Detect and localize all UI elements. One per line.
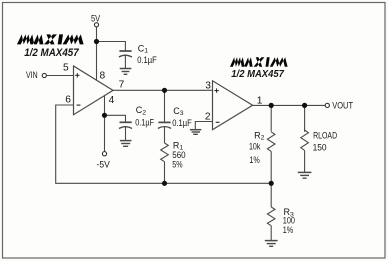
ground R3 (265, 240, 278, 242)
svg-text:8: 8 (100, 71, 106, 82)
wire R1 to ground rail (164, 162, 166, 184)
svg-text:-5V: -5V (97, 160, 111, 171)
svg-text:100: 100 (283, 216, 295, 226)
ground at U2 pin 2 (190, 129, 201, 131)
terminal VOUT (325, 103, 329, 107)
svg-text:1: 1 (257, 95, 263, 106)
op-amp U1 minus sign (77, 104, 81, 106)
svg-text:0.1µF: 0.1µF (137, 55, 157, 65)
wire R3 bottom to ground (270, 226, 272, 241)
svg-text:10k: 10k (249, 142, 261, 152)
ground C2 (120, 140, 132, 142)
op-amp U2 minus sign (216, 121, 220, 123)
capacitor C2 curved plate (119, 127, 132, 129)
svg-text:7: 7 (119, 79, 125, 90)
op-amp U2 plus sign (214, 88, 218, 92)
svg-text:1/2 MAX457: 1/2 MAX457 (24, 47, 79, 59)
ground RLOAD (298, 171, 312, 173)
wire R2 top (270, 105, 272, 131)
svg-text:RLOAD: RLOAD (313, 131, 337, 141)
junction dot 5V/pin8/C1 (94, 39, 99, 44)
wire C3 bottom to R1 (164, 127, 166, 144)
resistor R2 zigzag (267, 132, 275, 152)
wire 5V terminal down to junction (96, 27, 98, 42)
wire RLOAD top (304, 105, 306, 131)
junction dot R1/rail (162, 181, 167, 186)
wire junction to C1 (97, 42, 126, 52)
svg-text:4: 4 (109, 95, 115, 106)
svg-text:5%: 5% (172, 160, 182, 170)
junction dot RLOAD top (302, 103, 307, 108)
wire U2 pin 1 output to VOUT (253, 104, 326, 106)
svg-text:5V: 5V (91, 13, 101, 24)
capacitor C2 bottom stub (125, 127, 127, 141)
svg-text:1/2 MAX457: 1/2 MAX457 (231, 69, 285, 80)
wire pin 8 (junction down to triangle top edge) (96, 42, 98, 81)
svg-text:1%: 1% (283, 225, 293, 235)
ground C1 (120, 68, 132, 70)
capacitor C3 curved plate (158, 127, 171, 129)
svg-text:VOUT: VOUT (332, 100, 353, 111)
svg-text:3: 3 (205, 80, 211, 91)
junction dot output/C3 node (162, 88, 167, 93)
junction dot R2/rail/R3 (269, 181, 274, 186)
op-amp U1 triangle (74, 66, 114, 115)
wire RLOAD bottom to ground (304, 150, 306, 172)
svg-text:6: 6 (65, 95, 71, 106)
terminal 5V (94, 23, 98, 27)
capacitor C2 plate (120, 121, 132, 123)
wire junction to -5V terminal (104, 115, 106, 151)
svg-text:5: 5 (63, 63, 69, 74)
resistor RLOAD zigzag (301, 130, 309, 150)
resistor R3 zigzag (267, 207, 275, 226)
junction dot pin1/R2 (269, 103, 274, 108)
junction dot pin4/-5V/C2 (102, 113, 107, 118)
svg-text:0.1µF: 0.1µF (172, 118, 192, 128)
capacitor C3 plate (158, 121, 170, 123)
terminal -5V (102, 152, 106, 156)
wire pin 7 output to U2 pin 3 (113, 89, 213, 91)
svg-text:1%: 1% (249, 155, 259, 165)
MAXIM logo U2 (230, 57, 288, 67)
svg-text:150: 150 (313, 142, 327, 152)
wire R2 bottom to rail (270, 151, 272, 183)
svg-text:0.1µF: 0.1µF (135, 118, 154, 128)
op-amp U1 plus sign (75, 73, 79, 77)
wire U2 pin 2 to ground stub (195, 122, 212, 130)
wire VIN to op-amp U1 +input (46, 75, 73, 77)
wire C3 top stub from output wire (164, 90, 166, 122)
MAXIM logo U1 (17, 34, 84, 44)
terminal VIN (42, 73, 46, 77)
wire rail junction down to R3 (270, 183, 272, 207)
capacitor C1 plate (119, 50, 131, 52)
svg-text:VIN: VIN (26, 70, 38, 81)
feedback wire pin6 left, down, along rail to R2 bottom (56, 105, 272, 183)
svg-text:2: 2 (205, 112, 211, 123)
resistor R1 zigzag (161, 143, 169, 162)
capacitor C1 bottom stub (124, 55, 126, 68)
op-amp U2 triangle (213, 81, 253, 130)
capacitor C1 curved plate (119, 55, 132, 57)
wire pin 4 down to -5V junction (104, 96, 106, 116)
wire junction to C2 (105, 115, 126, 122)
